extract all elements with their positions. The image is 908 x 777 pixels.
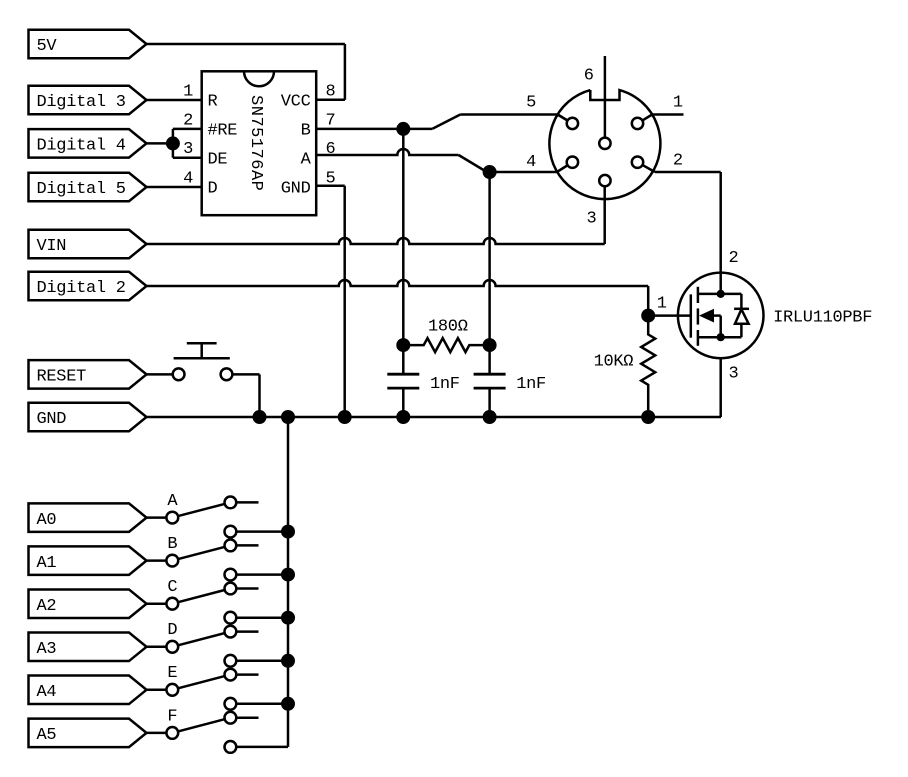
svg-text:7: 7 [326, 111, 336, 130]
switch A0 lever [172, 502, 230, 517]
junction A [483, 165, 497, 179]
wire A5 contact to bus [236, 746, 288, 749]
svg-text:3: 3 [729, 365, 739, 384]
net flag Digital 3 [29, 86, 147, 115]
net flag A1 [29, 546, 147, 575]
svg-text:GND: GND [37, 410, 67, 429]
svg-text:F: F [167, 707, 177, 726]
wire A diagonal down [459, 155, 487, 172]
switch A0 pole circle [166, 512, 178, 524]
svg-text:A1: A1 [37, 554, 57, 573]
wire B to DIN [460, 113, 557, 116]
MOSFET diode cathode bar [734, 308, 749, 311]
wire A4 to pole [147, 689, 167, 692]
switch A3 pole circle [166, 641, 178, 653]
DIN pin 3 lead [604, 181, 607, 187]
wire Digital 3 to pin 1 [147, 99, 202, 102]
svg-text:IRLU110PBF: IRLU110PBF [773, 309, 872, 328]
capacitor C1 plate bottom [387, 387, 419, 390]
MOSFET diode bottom lead [721, 336, 742, 339]
wire B diagonal up [432, 115, 460, 129]
DIN pin circle 6 [599, 138, 610, 149]
wire pin 7 B [316, 128, 432, 131]
junction IC GND [338, 410, 352, 424]
DIN pin circle 5 [567, 118, 578, 129]
svg-text:A0: A0 [37, 511, 57, 530]
junction bus A3 [281, 654, 295, 668]
svg-text:A4: A4 [37, 683, 57, 702]
MOSFET diode down1 [740, 294, 743, 309]
net flag 5V [29, 30, 147, 59]
switch A2 pole circle [166, 598, 178, 610]
switch A5 pole circle [166, 727, 178, 739]
wire Digital 4 stub [147, 142, 173, 145]
MOSFET source dot [717, 333, 725, 341]
svg-text:2: 2 [729, 249, 739, 268]
switch A3 throw circle [225, 626, 237, 638]
svg-text:DE: DE [208, 150, 228, 169]
switch A5 contact circle [225, 741, 237, 753]
wire VIN [147, 238, 605, 244]
MOSFET source connect [698, 336, 721, 339]
svg-text:SN75176AP: SN75176AP [246, 95, 265, 191]
wire button down [258, 374, 261, 417]
MOSFET body wire [706, 314, 721, 317]
junction bus A4 [281, 697, 295, 711]
svg-text:A3: A3 [37, 640, 57, 659]
wire Digital 2 down [647, 286, 650, 316]
svg-text:4: 4 [526, 153, 536, 172]
MOSFET body down [719, 316, 722, 338]
svg-text:3: 3 [183, 140, 193, 159]
wire 5V down to pin 8 [344, 44, 347, 100]
net flag A0 [29, 503, 147, 531]
junction Digital 4 [166, 136, 180, 150]
wire 5V to corner [147, 43, 345, 46]
svg-text:VIN: VIN [37, 237, 67, 256]
switch A5 throw circle [225, 712, 237, 724]
wire B junction down [402, 129, 405, 374]
svg-text:1nF: 1nF [430, 375, 460, 394]
net flag A3 [29, 633, 147, 662]
switch A1 contact circle [225, 569, 237, 581]
wire C2 down [488, 388, 491, 417]
switch A4 contact circle [225, 698, 237, 710]
MOSFET gate bar [690, 294, 693, 337]
MOSFET diode down2 [740, 324, 743, 338]
wire pin 6 A [316, 149, 458, 155]
push button cap [187, 342, 217, 345]
net flag A4 [29, 676, 147, 705]
capacitor C1 plate top [387, 373, 419, 376]
net flag RESET [29, 360, 147, 389]
IC U1 body [202, 71, 317, 215]
net flag Digital 5 [29, 173, 147, 202]
svg-text:Digital 2: Digital 2 [37, 279, 126, 298]
DIN connector J1 outline [549, 90, 660, 199]
net flag Digital 2 [29, 272, 147, 301]
wire A3 to pole [147, 646, 167, 649]
wire button to GND corner [232, 373, 259, 376]
switch A3 lever [172, 632, 230, 647]
svg-text:5: 5 [526, 93, 536, 112]
wire IC GND down [343, 186, 346, 417]
junction R1 right [483, 338, 497, 352]
wire A2 contact to bus [236, 616, 288, 619]
svg-text:1: 1 [657, 295, 667, 314]
switch A3 stub [236, 630, 258, 633]
wire C1 down [402, 388, 405, 417]
switch A4 stub [236, 673, 258, 676]
MOSFET diode top lead [721, 293, 742, 296]
wire pin 5 GND [316, 185, 345, 188]
capacitor C2 plate top [474, 373, 506, 376]
MOSFET drain connect [698, 293, 721, 296]
junction button-GND [253, 410, 267, 424]
junction bus A2 [281, 611, 295, 625]
DIN pin circle 4 [567, 157, 578, 168]
MOSFET channel segment mid [697, 308, 700, 324]
wire to pin 3 [173, 156, 202, 159]
switch A0 stub [236, 501, 258, 504]
junction R2 GND [641, 410, 655, 424]
junction B [396, 122, 410, 136]
svg-text:180Ω: 180Ω [428, 317, 468, 336]
svg-text:#RE: #RE [208, 122, 238, 141]
switch A4 throw circle [225, 669, 237, 681]
wire Digital 2 [147, 280, 649, 286]
wire DIN pin2 down to drain [719, 172, 722, 294]
svg-text:A5: A5 [37, 726, 57, 745]
switch A5 lever [172, 718, 230, 733]
svg-text:B: B [167, 535, 177, 554]
svg-text:2: 2 [183, 111, 193, 130]
svg-text:E: E [167, 664, 177, 683]
net flag A2 [29, 589, 147, 618]
svg-text:2: 2 [673, 152, 683, 171]
DIN pin 1 lead [638, 115, 653, 124]
wire A3 contact to bus [236, 660, 288, 663]
switch A0 contact circle [225, 526, 237, 538]
svg-text:B: B [301, 122, 311, 141]
push button plunger [200, 343, 203, 358]
svg-text:A: A [301, 150, 312, 169]
svg-text:R: R [208, 93, 218, 112]
junction bus A0 [281, 525, 295, 539]
svg-text:D: D [208, 180, 218, 199]
net flag VIN [29, 230, 147, 259]
MOSFET channel segment bottom [697, 330, 700, 346]
wire A0 contact to bus [236, 530, 288, 533]
svg-text:Digital 5: Digital 5 [37, 180, 126, 199]
DIN pin 1 stub [652, 113, 683, 116]
switch A4 pole circle [166, 684, 178, 696]
svg-text:A2: A2 [37, 597, 57, 616]
MOSFET drain dot [717, 290, 725, 298]
switch A2 stub [236, 587, 258, 590]
junction gate [641, 309, 655, 323]
wire gate [648, 314, 691, 317]
wire Digital 5 to pin 4 [147, 186, 202, 189]
junction R1 left [396, 338, 410, 352]
wire A to DIN [487, 171, 557, 174]
switch bus vertical [287, 417, 290, 747]
svg-text:6: 6 [326, 140, 336, 159]
net flag Digital 4 [29, 129, 147, 158]
svg-text:6: 6 [584, 67, 594, 86]
svg-text:5V: 5V [37, 37, 58, 56]
DIN pin circle 1 [632, 118, 643, 129]
wire A2 to pole [147, 602, 167, 605]
wire A1 contact to bus [236, 573, 288, 576]
svg-text:RESET: RESET [37, 368, 87, 387]
switch A5 stub [236, 716, 258, 719]
net flag A5 [29, 719, 147, 748]
svg-text:VCC: VCC [281, 93, 311, 112]
capacitor C2 plate bottom [474, 387, 506, 390]
switch A1 lever [172, 545, 230, 560]
MOSFET diode triangle [735, 309, 749, 323]
MOSFET body arrow [699, 309, 714, 323]
push button bar [174, 357, 230, 360]
switch A1 pole circle [166, 555, 178, 567]
switch A3 contact circle [225, 655, 237, 667]
svg-text:A: A [167, 492, 178, 511]
GND rail [147, 416, 722, 419]
junction bus A1 [281, 568, 295, 582]
wire Digital 4 vertical [172, 129, 175, 158]
wire A junction down [488, 172, 491, 374]
svg-text:D: D [167, 621, 177, 640]
net flag GND [29, 403, 147, 432]
MOSFET Q1 circle [678, 273, 764, 359]
wire to pin 2 [173, 128, 202, 131]
svg-text:10KΩ: 10KΩ [594, 353, 634, 372]
push button terminal right [221, 368, 233, 380]
DIN pin circle 2 [632, 157, 643, 168]
wire A into DIN pin 4 [557, 162, 573, 172]
IC U1 notch [244, 71, 274, 86]
DIN pin circle 3 [599, 175, 610, 186]
svg-text:4: 4 [183, 169, 193, 188]
svg-text:1nF: 1nF [516, 375, 546, 394]
push button terminal left [173, 368, 185, 380]
DIN pin 2 lead [638, 162, 655, 172]
switch A4 lever [172, 675, 230, 690]
MOSFET channel segment top [697, 287, 700, 303]
svg-text:Digital 3: Digital 3 [37, 93, 126, 112]
wire source down [719, 358, 722, 417]
switch A2 contact circle [225, 612, 237, 624]
wire VIN up to DIN pin 3 [603, 186, 606, 244]
switch A0 throw circle [225, 497, 237, 509]
switch A2 throw circle [225, 583, 237, 595]
svg-text:Digital 4: Digital 4 [37, 137, 126, 156]
DIN pin 5 lead [558, 115, 573, 124]
switch A2 lever [172, 589, 230, 604]
wire B into DIN pin 5 [558, 115, 573, 124]
svg-text:3: 3 [587, 210, 597, 229]
wire A0 to pole [147, 516, 167, 519]
DIN pin 6 stub [604, 56, 607, 143]
resistor R1 180 ohm [403, 338, 489, 352]
switch A1 stub [236, 544, 258, 547]
wire A1 to pole [147, 559, 167, 562]
wire A5 to pole [147, 732, 167, 735]
wire RESET to button [147, 373, 173, 376]
switch A1 throw circle [225, 540, 237, 552]
svg-text:1: 1 [183, 83, 193, 102]
svg-text:C: C [167, 578, 177, 597]
DIN pin 2 wire [655, 171, 721, 174]
svg-text:GND: GND [281, 180, 311, 199]
junction C1 GND [396, 410, 410, 424]
resistor R2 10K ohm [641, 316, 655, 417]
svg-text:1: 1 [673, 93, 683, 112]
DIN pin 4 lead [557, 162, 573, 172]
wire pin 8 VCC [316, 99, 345, 102]
junction bus-GND [281, 410, 295, 424]
junction C2 GND [483, 410, 497, 424]
wire A4 contact to bus [236, 703, 288, 706]
